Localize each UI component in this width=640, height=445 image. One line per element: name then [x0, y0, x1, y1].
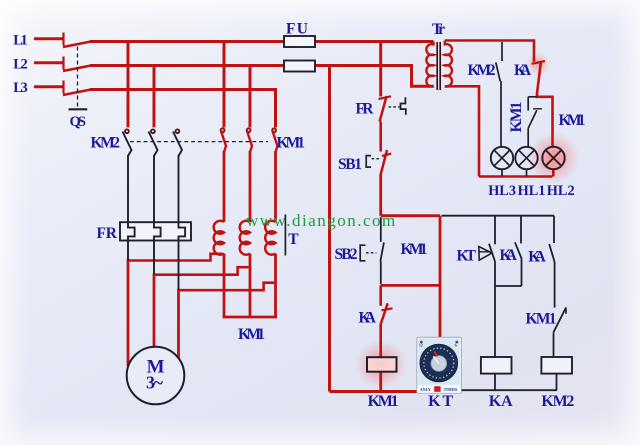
svg-text:QS: QS	[70, 114, 87, 130]
svg-text:L2: L2	[13, 56, 28, 72]
svg-text:6: 6	[455, 343, 457, 348]
svg-text:HL2: HL2	[547, 183, 575, 199]
svg-text:KM1: KM1	[559, 112, 586, 129]
svg-text:L1: L1	[13, 33, 28, 49]
svg-text:KM1: KM1	[277, 134, 306, 151]
svg-text:KM2: KM2	[468, 62, 496, 79]
svg-text:KM2: KM2	[541, 393, 574, 410]
svg-text:T: T	[288, 231, 299, 248]
svg-text:KA: KA	[489, 393, 513, 410]
svg-text:KT: KT	[457, 247, 477, 264]
svg-text:FR: FR	[97, 225, 118, 242]
svg-text:3~: 3~	[146, 373, 164, 393]
svg-text:www.diangon.com: www.diangon.com	[246, 211, 397, 230]
svg-text:KA: KA	[359, 310, 377, 327]
svg-text:KA: KA	[500, 247, 518, 264]
svg-text:KT: KT	[428, 393, 453, 410]
svg-text:KM2: KM2	[91, 135, 121, 152]
svg-text:KM1: KM1	[238, 326, 265, 343]
svg-text:FR: FR	[356, 100, 375, 117]
svg-text:L3: L3	[13, 80, 28, 96]
svg-text:HL3: HL3	[488, 183, 516, 199]
svg-text:KA: KA	[528, 249, 546, 266]
svg-text:SB2: SB2	[335, 246, 358, 263]
svg-text:ANLY: ANLY	[420, 387, 431, 392]
svg-text:KM1: KM1	[526, 311, 557, 328]
svg-text:KM1: KM1	[401, 241, 428, 258]
svg-text:Tr: Tr	[432, 21, 445, 38]
svg-text:HL1: HL1	[518, 183, 546, 199]
svg-text:KM1: KM1	[508, 102, 525, 133]
svg-text:KA: KA	[514, 62, 532, 79]
svg-text:FU: FU	[286, 21, 308, 38]
svg-text:KM1: KM1	[368, 393, 399, 410]
svg-text:TIMER: TIMER	[444, 387, 458, 392]
svg-text:SB1: SB1	[338, 156, 362, 173]
svg-text:12: 12	[419, 343, 423, 348]
